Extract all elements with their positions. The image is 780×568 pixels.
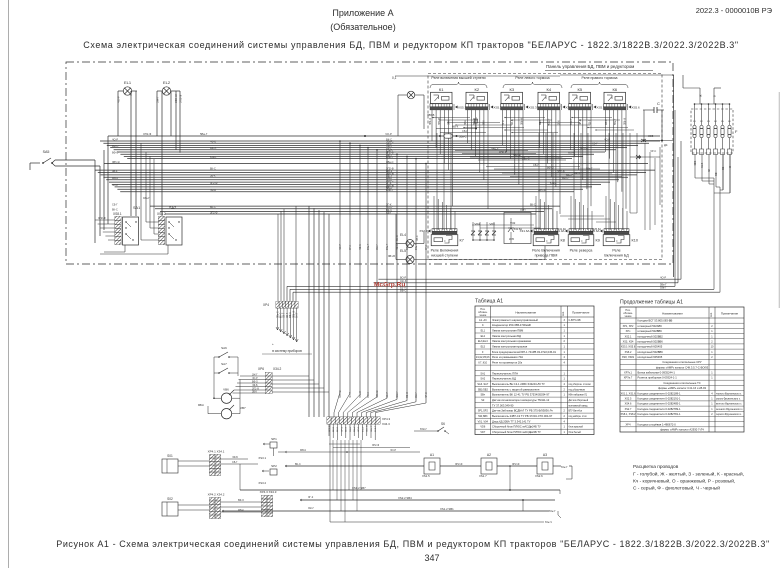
svg-text:В: В <box>713 95 717 97</box>
svg-text:347: 347 <box>424 553 439 563</box>
svg-text:Кол.: Кол. <box>710 312 713 317</box>
svg-text:Х25.6А: Х25.6А <box>592 227 601 231</box>
svg-text:ЗП2-Ф: ЗП2-Ф <box>372 444 379 447</box>
svg-text:колодочный 502ВВ2: колодочный 502ВВ2 <box>638 334 664 338</box>
svg-text:ЗВб-Ж: ЗВб-Ж <box>367 425 369 432</box>
svg-text:ВФ-О: ВФ-О <box>238 499 244 502</box>
svg-text:ЗВа-С: ЗВа-С <box>459 135 467 139</box>
svg-text:ЮЖ-Г: ЮЖ-Г <box>210 156 218 159</box>
svg-text:К1,К2,К5,К6: К1,К2,К5,К6 <box>476 356 490 359</box>
svg-text:МВ-К: МВ-К <box>568 152 575 155</box>
svg-text:ЮЖ-Г: ЮЖ-Г <box>549 118 551 125</box>
svg-text:ЗГ-К: ЗГ-К <box>308 496 314 499</box>
svg-text:Х31.9А: Х31.9А <box>557 227 566 231</box>
svg-text:Юж-Ч: Юж-Ч <box>545 520 552 524</box>
svg-text:S01: S01 <box>167 454 173 458</box>
svg-text:ЗП2-Ф: ЗП2-Ф <box>98 216 106 220</box>
svg-text:фирмы «АМР» каталог С41-16 и 2: фирмы «АМР» каталог С41-16 и 28-93 <box>658 386 707 390</box>
svg-text:Реле включения высшей ступени: Реле включения высшей ступени <box>431 76 485 80</box>
svg-text:Колодки ВСГ 53.805.083-ВВ: Колодки ВСГ 53.805.083-ВВ <box>638 319 673 323</box>
svg-text:ЗВа-С: ЗВа-С <box>371 425 373 432</box>
svg-text:под сборочн. столом: под сборочн. столом <box>569 384 591 386</box>
svg-text:Наименование: Наименование <box>662 312 683 316</box>
svg-text:ВК-С: ВК-С <box>346 427 348 432</box>
svg-text:0,1: 0,1 <box>392 76 397 80</box>
svg-text:ВФ-О: ВФ-О <box>574 172 580 175</box>
svg-text:МВ-К: МВ-К <box>367 392 370 398</box>
svg-text:ХРч: ХРч <box>626 330 631 333</box>
svg-text:А2: А2 <box>487 453 491 457</box>
svg-text:К2: К2 <box>475 87 480 92</box>
svg-text:ЗП2-Ф: ЗП2-Ф <box>143 132 151 136</box>
svg-text:EL1: EL1 <box>124 80 132 85</box>
svg-text:СБ-Г: СБ-Г <box>533 163 539 167</box>
svg-text:Выключатель ВН 13-1 24ВС 6432: Выключатель ВН 13-1 24ВС 643243-Л0 ТУ <box>492 382 545 386</box>
svg-text:VВ6: VВ6 <box>223 388 229 392</box>
svg-text:Таблица А1: Таблица А1 <box>475 299 503 305</box>
svg-text:ЧО-Р: ЧО-Р <box>390 449 396 452</box>
svg-text:Вилка кабельная 0-0935244-1: Вилка кабельная 0-0935244-1 <box>638 371 676 375</box>
svg-text:(Обязательное): (Обязательное) <box>330 22 395 32</box>
svg-text:ХР4: ХР4 <box>263 303 269 307</box>
svg-text:ХР1, ХР2: ХР1, ХР2 <box>623 325 634 328</box>
svg-text:ХS1.5: ХS1.5 <box>422 474 430 478</box>
svg-text:ЧО-Р: ЧО-Р <box>112 184 118 187</box>
svg-text:ЗЖ-Г: ЗЖ-Г <box>156 96 160 103</box>
svg-text:ВФ-О: ВФ-О <box>112 152 118 155</box>
svg-text:Схема электрическая соединений: Схема электрическая соединений системы у… <box>83 40 739 50</box>
svg-text:SА1: SА1 <box>480 372 485 375</box>
svg-text:ЗВа-С: ЗВа-С <box>359 391 362 398</box>
svg-text:К5: К5 <box>578 87 583 92</box>
svg-text:КО5: КО5 <box>648 134 654 138</box>
svg-text:МВ-К: МВ-К <box>300 449 307 452</box>
svg-text:СБ-Г: СБ-Г <box>462 129 468 133</box>
svg-text:ХS2.2 SВ4: ХS2.2 SВ4 <box>398 496 412 500</box>
svg-text:ЗЖ-Г: ЗЖ-Г <box>252 374 258 376</box>
svg-text:ХР7к.1: ХР7к.1 <box>624 372 633 375</box>
svg-text:Расцветка проводов: Расцветка проводов <box>633 464 679 470</box>
svg-text:ЧР-С: ЧР-С <box>425 392 428 398</box>
svg-text:ЧО-Р: ЧО-Р <box>112 138 118 141</box>
svg-text:SА3..SА7: SА3..SА7 <box>477 383 488 386</box>
svg-text:ЗВ-К: ЗВ-К <box>483 119 485 125</box>
svg-text:Выключатель ВК 12-41 ТУ РБ 375: Выключатель ВК 12-41 ТУ РБ 37534/05034-9… <box>492 393 550 397</box>
svg-text:К10: К10 <box>632 239 638 243</box>
svg-text:ЧО-Р: ЧО-Р <box>349 392 352 398</box>
svg-text:ЗП2-Ф: ЗП2-Ф <box>512 463 520 466</box>
svg-text:SА7: SА7 <box>221 362 227 366</box>
svg-text:ЮЖ-Г: ЮЖ-Г <box>550 182 558 185</box>
svg-text:ЧО-Р: ЧО-Р <box>117 96 121 103</box>
svg-text:МВ-К: МВ-К <box>112 177 119 180</box>
svg-text:ЧФ-Б: ЧФ-Б <box>210 141 216 144</box>
svg-text:К3: К3 <box>510 87 515 92</box>
svg-text:9За-Г: 9За-Г <box>386 243 389 250</box>
svg-text:ЗП2-Ф: ЗП2-Ф <box>328 425 331 432</box>
svg-text:Лампа контрольная БД: Лампа контрольная БД <box>492 334 521 338</box>
svg-text:ЧО-Р: ЧО-Р <box>660 276 666 279</box>
svg-text:Датчик сигнализатора температу: Датчик сигнализатора температуры ТМ111-1… <box>492 398 550 402</box>
svg-text:ЗП2-Ф: ЗП2-Ф <box>210 211 218 214</box>
svg-text:ХS1.1, ХS1.6: ХS1.1, ХS1.6 <box>620 392 636 395</box>
svg-text:МВ-К: МВ-К <box>238 509 244 512</box>
svg-text:ЕL2: ЕL2 <box>481 335 486 338</box>
svg-text:ЗЖ-Г: ЗЖ-Г <box>415 392 418 398</box>
svg-text:Наименование: Наименование <box>515 311 536 315</box>
svg-text:С: С <box>657 101 660 106</box>
svg-text:ЗВ-К: ЗВ-К <box>252 391 258 393</box>
svg-text:Электромагнит шарикоуправляем: Электромагнит шарикоуправляемый <box>492 318 538 322</box>
svg-text:9За-Г: 9За-Г <box>520 209 527 212</box>
svg-text:блок красный: блок красный <box>569 426 584 429</box>
svg-text:Диод КД 20БА ТТ 3.342.141 ТУ: Диод КД 20БА ТТ 3.342.141 ТУ <box>492 419 531 423</box>
svg-text:ВО-Р: ВО-Р <box>400 275 407 279</box>
svg-text:ЗВб-Ж: ЗВб-Ж <box>339 390 342 398</box>
svg-text:под сборочным: под сборочным <box>569 389 586 391</box>
svg-text:ВФ: ВФ <box>715 172 718 176</box>
svg-text:ХР4.1 Х34.1: ХР4.1 Х34.1 <box>208 450 225 454</box>
svg-text:зеленого Фрунзенского з.: зеленого Фрунзенского з. <box>716 408 743 411</box>
svg-text:ВФ-О: ВФ-О <box>112 145 118 148</box>
svg-text:ХР6: ХР6 <box>258 367 264 371</box>
svg-text:ЗВ-К: ЗВ-К <box>210 175 216 178</box>
svg-text:ВВ-С: ВВ-С <box>400 288 406 292</box>
svg-text:ЧО-Р: ЧО-Р <box>339 244 342 250</box>
svg-text:ВК-С: ВК-С <box>281 312 283 318</box>
svg-text:Реле Включения: Реле Включения <box>431 249 459 253</box>
svg-text:V03: V03 <box>489 222 495 226</box>
svg-text:SА6: SА6 <box>221 346 227 350</box>
svg-text:ЗП2-Ф: ЗП2-Ф <box>252 387 259 390</box>
svg-text:Реле: Реле <box>612 249 620 253</box>
svg-text:ЗЖ-Г: ЗЖ-Г <box>308 507 315 510</box>
svg-text:ХS5.6: ХS5.6 <box>632 106 641 110</box>
svg-text:фирмы «АМР» каталог С4К.3.5.7-: фирмы «АМР» каталог С4К.3.5.7-С-ВО/93 <box>656 365 709 369</box>
svg-text:ВК-С: ВК-С <box>295 463 301 466</box>
svg-text:К7..К10: К7..К10 <box>479 362 488 365</box>
svg-text:ХS1.7: ХS1.7 <box>479 474 487 478</box>
svg-text:Панель управления БД, ПВМ и ре: Панель управления БД, ПВМ и редуктором <box>546 64 634 69</box>
svg-text:НВч наборная Л1: НВч наборная Л1 <box>569 395 588 397</box>
svg-text:V04: V04 <box>474 222 480 226</box>
svg-text:ЗВб-Ж: ЗВб-Ж <box>293 310 295 318</box>
svg-text:ВК-С: ВК-С <box>530 203 536 206</box>
svg-text:SA2: SA2 <box>169 206 176 210</box>
svg-text:ХS2.6: ХS2.6 <box>535 474 543 478</box>
svg-text:Выключатель 24ВТ-С2 ТУ РБ 3: Выключатель 24ВТ-С2 ТУ РБ 37234-СТО.004-… <box>492 414 553 418</box>
svg-text:ЗВб-Ж: ЗВб-Ж <box>513 153 522 157</box>
svg-text:ЗВ-К: ЗВ-К <box>416 235 419 241</box>
svg-text:ЧФ-Б: ЧФ-Б <box>359 244 362 250</box>
svg-text:СБ-Г: СБ-Г <box>112 203 118 206</box>
svg-text:ХР7м.7: ХР7м.7 <box>624 377 633 380</box>
svg-text:ЮЖ-Г: ЮЖ-Г <box>396 391 399 398</box>
svg-text:ЗП2-Ф: ЗП2-Ф <box>455 463 463 466</box>
svg-text:Х34.2: Х34.2 <box>273 367 282 371</box>
svg-text:SР2: SР2 <box>271 464 277 468</box>
svg-text:А3: А3 <box>543 453 547 457</box>
svg-text:2022.3 - 0000010В РЭ: 2022.3 - 0000010В РЭ <box>696 6 773 15</box>
svg-text:EL4: EL4 <box>400 233 406 237</box>
svg-text:А1: А1 <box>430 453 434 457</box>
svg-text:ЗП2-Ф: ЗП2-Ф <box>179 95 183 103</box>
svg-text:ЗВб-Ж: ЗВб-Ж <box>174 94 178 103</box>
svg-text:колодочный 502ВВ6: колодочный 502ВВ6 <box>638 350 664 354</box>
svg-text:Реле правого тормоза: Реле правого тормоза <box>582 76 618 80</box>
svg-text:ХS8, ХS81: ХS8, ХS81 <box>622 356 635 359</box>
svg-text:Продолжение таблицы А1: Продолжение таблицы А1 <box>620 300 683 306</box>
svg-text:Кч - коричневый, О - оранжевый: Кч - коричневый, О - оранжевый, Р - розо… <box>633 478 735 485</box>
svg-text:ЗВб-В: ЗВб-В <box>427 113 435 117</box>
svg-text:Колодка соединителя 0-0282789-: Колодка соединителя 0-0282789-1 <box>638 407 682 411</box>
svg-text:ЗВб-Ж: ЗВб-Ж <box>538 189 546 192</box>
svg-text:ХРЧ: ХРЧ <box>625 423 630 426</box>
svg-text:ЧО-Р: ЧО-Р <box>386 392 389 398</box>
svg-text:XS8.2: XS8.2 <box>157 212 166 216</box>
svg-text:ЗВб-Ж: ЗВб-Ж <box>624 117 626 125</box>
svg-text:монтажный завод: монтажный завод <box>569 404 589 407</box>
svg-text:штекерный 502ВВ6: штекерный 502ВВ6 <box>638 329 663 333</box>
svg-text:ЗВа-С: ЗВа-С <box>522 156 530 160</box>
svg-text:МВ-К: МВ-К <box>198 404 205 407</box>
svg-text:ЧФБ: ЧФБ <box>694 160 697 166</box>
svg-text:5Ва-Г: 5Ва-Г <box>200 132 208 136</box>
svg-text:ЗВч-В: ЗВч-В <box>388 255 395 258</box>
svg-text:ЗЖ-Г: ЗЖ-Г <box>376 244 379 250</box>
svg-text:S02: S02 <box>167 497 173 501</box>
svg-text:ХS2.7: ХS2.7 <box>625 408 632 411</box>
svg-text:желтого Фрунзенского з.: желтого Фрунзенского з. <box>716 403 742 406</box>
svg-text:ЗВб-Ж: ЗВб-Ж <box>580 147 588 150</box>
svg-text:ЗГ-К: ЗГ-К <box>503 120 505 125</box>
svg-text:ЗВб-Ж: ЗВб-Ж <box>430 117 432 125</box>
svg-text:ВК-С: ВК-С <box>210 206 216 209</box>
svg-text:SК: SК <box>441 422 445 426</box>
svg-text:ЗВб-Ж: ЗВб-Ж <box>112 161 120 164</box>
svg-text:9За-Г: 9За-Г <box>143 196 150 200</box>
svg-text:Юж-Г: Юж-Г <box>549 509 556 513</box>
svg-text:Переключатель БД: Переключатель БД <box>492 377 516 381</box>
svg-text:Выключатель с защитой размыкат: Выключатель с защитой размыкателя <box>492 387 540 391</box>
svg-text:К1: К1 <box>439 87 444 92</box>
svg-text:МсGrp.Ru: МсGrp.Ru <box>374 282 405 289</box>
svg-text:Реле левого тормоза: Реле левого тормоза <box>515 76 549 80</box>
svg-text:Д4: Д4 <box>664 143 668 147</box>
svg-text:ВТУ Витебск: ВТУ Витебск <box>569 411 583 413</box>
svg-text:ЗВа-С: ЗВа-С <box>277 311 279 318</box>
svg-text:Колодка соединителя 0-0282781-: Колодка соединителя 0-0282781-1 <box>638 412 682 416</box>
svg-text:ЧФ-Б: ЧФ-Б <box>252 384 258 387</box>
svg-text:ХS5.3: ХS5.3 <box>529 106 538 110</box>
svg-text:Г - голубой, Ж - желтый, З - з: Г - голубой, Ж - желтый, З - зеленый, К … <box>633 471 744 478</box>
svg-text:EL2: EL2 <box>163 80 171 85</box>
svg-text:SВч: SВч <box>481 394 486 397</box>
svg-text:Кол.: Кол. <box>562 311 565 316</box>
svg-text:ХР4.3 Х34.3: ХР4.3 Х34.3 <box>260 490 277 494</box>
svg-text:ЗГ-К: ЗГ-К <box>425 244 428 250</box>
svg-text:СБ-Г: СБ-Г <box>232 461 238 464</box>
svg-text:ВК-С: ВК-С <box>396 235 399 241</box>
svg-text:ЕL1: ЕL1 <box>481 330 486 333</box>
svg-text:ВБ: ВБ <box>722 166 725 170</box>
svg-text:5Ва-Г: 5Ва-Г <box>350 425 352 432</box>
svg-text:СБ-Г: СБ-Г <box>284 312 286 318</box>
svg-text:Приложение А: Приложение А <box>332 8 393 18</box>
svg-text:низшей ступени: низшей ступени <box>431 253 458 257</box>
svg-text:Включения БД: Включения БД <box>604 253 629 257</box>
svg-text:СБ-Г: СБ-Г <box>287 312 289 318</box>
svg-text:ХS8.1, ХS8.2: ХS8.1, ХS8.2 <box>620 413 636 416</box>
svg-text:SA5: SA5 <box>43 150 50 154</box>
svg-text:SВ1/SВ2: SВ1/SВ2 <box>478 388 489 391</box>
svg-text:черного Фрунзенского з.: черного Фрунзенского з. <box>716 392 742 395</box>
svg-text:черного Фрунзенского з.: черного Фрунзенского з. <box>716 413 742 416</box>
svg-text:ЕL3,ЕL4: ЕL3,ЕL4 <box>478 340 488 343</box>
svg-text:ЮЖ-Г: ЮЖ-Г <box>375 425 377 432</box>
svg-text:ВФ-О: ВФ-О <box>406 392 409 398</box>
svg-text:VD6: VD6 <box>480 426 485 429</box>
svg-text:А1..А3: А1..А3 <box>479 319 487 322</box>
svg-text:ЧО-Р: ЧО-Р <box>252 378 258 380</box>
svg-text:ТУ 37.003.349-90: ТУ 37.003.349-90 <box>492 403 514 407</box>
svg-text:5Ва-Г: 5Ва-Г <box>615 118 617 125</box>
svg-text:К4: К4 <box>547 87 552 92</box>
svg-text:ХS3, ХS4: ХS3, ХS4 <box>623 341 634 344</box>
svg-text:ЮЖ-Г: ЮЖ-Г <box>420 428 428 431</box>
svg-text:привода ПВМ: привода ПВМ <box>535 253 558 257</box>
svg-text:ХS4.6: ХS4.6 <box>625 403 632 406</box>
svg-text:ЗВ-К: ЗВ-К <box>112 170 118 173</box>
svg-text:КО5: КО5 <box>509 237 514 241</box>
svg-text:Лампа контрольная ПВМ: Лампа контрольная ПВМ <box>492 329 524 333</box>
svg-text:МВ-К: МВ-К <box>290 312 292 318</box>
svg-text:ЗП2-Ф: ЗП2-Ф <box>438 118 441 125</box>
svg-text:Соединения штепсельные СРУ: Соединения штепсельные СРУ <box>662 360 701 364</box>
svg-text:9За-Г: 9За-Г <box>415 243 418 250</box>
svg-text:Соединения штепсельные ТС: Соединения штепсельные ТС <box>663 381 700 385</box>
svg-text:серого Фрунзенского з.: серого Фрунзенского з. <box>716 398 741 401</box>
svg-text:SW,SВ3: SW,SВ3 <box>478 415 488 418</box>
svg-text:ЗВб-Ж: ЗВб-Ж <box>376 390 379 398</box>
svg-text:С: С <box>482 324 484 327</box>
svg-text:5Ва-Г: 5Ва-Г <box>566 173 573 177</box>
svg-text:колодочный 605405: колодочный 605405 <box>638 345 663 349</box>
svg-text:Х34.3: Х34.3 <box>382 422 390 426</box>
svg-text:чение: чение <box>624 315 632 318</box>
svg-text:ЗЖ-Г: ЗЖ-Г <box>297 312 299 318</box>
svg-text:Реле нз промежуток 20к: Реле нз промежуток 20к <box>492 361 523 365</box>
svg-text:ВФ-О: ВФ-О <box>562 177 568 180</box>
svg-text:ХS2.7: ХS2.7 <box>419 229 428 233</box>
svg-text:С - серый, Ф - фиолетовый, Ч -: С - серый, Ф - фиолетовый, Ч - черный <box>633 485 720 492</box>
svg-text:ХS3.2 SВ7: ХS3.2 SВ7 <box>352 486 366 490</box>
svg-text:Датчик сборочный: Датчик сборочный <box>569 399 589 402</box>
svg-text:SР1: SР1 <box>271 437 277 441</box>
svg-text:колодочный 502ВВ6: колодочный 502ВВ6 <box>638 340 664 344</box>
svg-text:Колодка соединителя 0-0282191-: Колодка соединителя 0-0282191-1 <box>638 397 682 401</box>
svg-text:О: О <box>729 166 732 168</box>
svg-text:Юж-Г: Юж-Г <box>561 465 568 469</box>
svg-text:Сборочный блок ПЛЮС мАС/Дв24Б: Сборочный блок ПЛЮС мАС/Дв24Б ТУ <box>492 430 541 434</box>
svg-text:ЮЖ-Г: ЮЖ-Г <box>571 118 573 125</box>
svg-text:в систему приборов: в систему приборов <box>272 349 302 353</box>
svg-text:ЧР-С: ЧР-С <box>358 426 360 432</box>
svg-text:SК: SК <box>481 399 485 402</box>
svg-text:Реле Включения: Реле Включения <box>532 249 560 253</box>
svg-text:Реле нз размыкания 70А: Реле нз размыкания 70А <box>492 355 523 359</box>
svg-text:Конденсатор К50-35В-4700мкФ: Конденсатор К50-35В-4700мкФ <box>492 323 531 327</box>
svg-text:под наборн. стол: под наборн. стол <box>569 416 588 418</box>
svg-text:ВК-С: ВК-С <box>333 427 335 432</box>
svg-text:ЗП2-Ф: ЗП2-Ф <box>210 182 218 185</box>
svg-text:ВФ-О: ВФ-О <box>556 156 562 159</box>
svg-text:ЗП2-Ф: ЗП2-Ф <box>473 118 476 125</box>
svg-text:ВФ-О: ВФ-О <box>547 165 554 169</box>
svg-text:К6: К6 <box>613 87 618 92</box>
svg-text:ХS6.2: ХS6.2 <box>625 351 632 354</box>
svg-text:МВ-К: МВ-К <box>606 119 608 125</box>
svg-text:К7: К7 <box>460 239 464 243</box>
svg-text:ЧФ-Б: ЧФ-Б <box>210 189 216 192</box>
svg-text:Розетка приборная 0-09324-1-: Розетка приборная 0-09324-1-1 <box>638 376 678 380</box>
svg-text:ЕL5: ЕL5 <box>481 346 486 349</box>
svg-text:ЗГ-К: ЗГ-К <box>349 244 352 250</box>
svg-text:ХS3.2: ХS3.2 <box>258 481 266 485</box>
svg-text:Колодка соединителя 0-0282485-: Колодка соединителя 0-0282485-1 <box>638 402 682 406</box>
svg-text:ВФ-О: ВФ-О <box>210 147 216 150</box>
svg-text:VВ7: VВ7 <box>240 406 246 410</box>
svg-text:К8: К8 <box>561 239 565 243</box>
svg-text:9За-Г: 9За-Г <box>362 426 364 432</box>
svg-text:Лампа контрольная красная: Лампа контрольная красная <box>492 345 528 349</box>
svg-text:9За-Г: 9За-Г <box>660 287 667 290</box>
svg-text:ХР4.2 Х34.2: ХР4.2 Х34.2 <box>208 493 225 497</box>
svg-text:штекерный 502АВ6: штекерный 502АВ6 <box>638 324 663 328</box>
svg-text:5Ва-Г: 5Ва-Г <box>406 243 409 250</box>
svg-text:Датчик Заблокир ВСДМ-Л ТУ РБ 3: Датчик Заблокир ВСДМ-Л ТУ РБ 375-В/93836… <box>492 409 553 413</box>
svg-text:41-В: 41-В <box>701 162 704 168</box>
svg-text:ВК-С: ВК-С <box>210 167 216 170</box>
svg-text:5Ва-Г: 5Ва-Г <box>492 147 499 151</box>
svg-text:фирмы «АМР» каталог А2930 7-ЛЧ: фирмы «АМР» каталог А2930 7-ЛЧ <box>660 428 704 432</box>
svg-text:5Ва-Г: 5Ва-Г <box>354 425 356 432</box>
svg-text:V01..V04: V01..V04 <box>478 420 489 423</box>
svg-text:Примечание: Примечание <box>721 312 739 316</box>
svg-text:Реле реверса: Реле реверса <box>570 249 593 253</box>
svg-text:ЗП2-Ф: ЗП2-Ф <box>557 169 565 173</box>
svg-text:ЗП2-Ф: ЗП2-Ф <box>499 150 507 154</box>
svg-text:Примечание: Примечание <box>572 311 590 315</box>
svg-text:ХР4.3: ХР4.3 <box>382 417 391 421</box>
svg-text:чение: чение <box>479 314 487 317</box>
svg-text:Лампа контрольная оранжевая: Лампа контрольная оранжевая <box>492 339 531 343</box>
svg-text:SA1: SA1 <box>133 206 140 210</box>
svg-text:ВФ-О: ВФ-О <box>252 380 258 383</box>
svg-text:Рисунок А1 - Схема электрическ: Рисунок А1 - Схема электрическая соедине… <box>56 539 770 549</box>
svg-text:SР1,SР2: SР1,SР2 <box>478 410 489 413</box>
svg-text:ХS5.1-ХS5.6: ХS5.1-ХS5.6 <box>621 346 636 349</box>
svg-text:XS8.1: XS8.1 <box>113 212 122 216</box>
svg-text:ЧР-С: ЧР-С <box>650 149 656 153</box>
svg-text:СБ-Г: СБ-Г <box>592 143 598 146</box>
svg-text:С-ЮТ5 24В: С-ЮТ5 24В <box>569 320 581 322</box>
svg-text:ХS1.2 SВ1: ХS1.2 SВ1 <box>440 507 454 511</box>
svg-text:Блок предохранителей БП-1 741Р: Блок предохранителей БП-1 741РВ 03-3722,… <box>492 350 557 354</box>
svg-text:ХS2.5: ХS2.5 <box>625 398 632 401</box>
svg-text:Х31.6А: Х31.6А <box>513 227 522 231</box>
svg-text:ЧФ-Б: ЧФ-Б <box>396 244 399 250</box>
